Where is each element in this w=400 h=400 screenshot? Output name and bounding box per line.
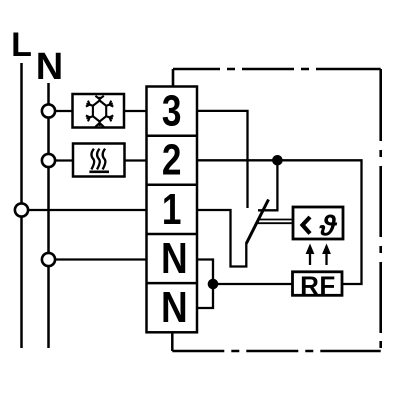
terminal block cell dividers	[147, 136, 198, 283]
wire L rail	[20, 63, 23, 348]
svg-text:RF: RF	[300, 270, 336, 300]
switch lever	[246, 200, 268, 244]
wire heating box to terminal 2	[125, 159, 147, 161]
cooling contactor box	[73, 94, 125, 128]
svg-text:N: N	[36, 46, 63, 88]
svg-text:ϑ: ϑ	[319, 211, 338, 243]
wire cooling box to terminal 3	[124, 110, 147, 112]
open terminal circle on N rail (heating)	[42, 154, 55, 167]
junction dot on terminal 2 wire	[272, 155, 283, 166]
enclosure dash-dot bottom border	[172, 350, 380, 353]
wire terminal N bracket to junction	[197, 260, 213, 309]
svg-text:N: N	[161, 282, 188, 332]
wire junction to RF box	[213, 283, 293, 285]
RF receiver box	[293, 272, 343, 296]
enclosure dash-dot right border	[379, 69, 382, 351]
svg-text:L: L	[11, 26, 32, 64]
thermostat less-than symbol	[303, 217, 311, 234]
wire terminal 2 to right side and RF	[197, 160, 362, 284]
svg-text:N: N	[161, 233, 188, 283]
signal arrow left (RF to thermostat)	[306, 244, 315, 266]
enclosure dash-dot top border	[173, 68, 381, 71]
wire terminal 1 to switch common	[197, 210, 246, 267]
svg-text:2: 2	[162, 136, 182, 185]
heating load box	[73, 144, 125, 177]
switch contact B drop from junction	[258, 160, 277, 210]
mechanical link to thermostat (double line)	[258, 219, 294, 221]
enclosure left stub top	[172, 69, 175, 87]
open terminal circle on N rail (cooling)	[42, 104, 55, 117]
open terminal circle on N rail (neutral)	[42, 253, 55, 266]
signal arrow right (RF to thermostat)	[322, 244, 331, 266]
wire N rail	[47, 83, 50, 348]
svg-text:3: 3	[162, 87, 182, 136]
svg-text:1: 1	[162, 185, 182, 234]
heating symbol wavy lines	[89, 149, 109, 172]
snowflake cooling symbol	[86, 96, 113, 127]
open terminal circle on L rail	[15, 203, 28, 216]
terminal block outline	[147, 87, 198, 333]
junction dot on N bracket	[208, 279, 219, 290]
wire terminal N2 to enclosure bottom	[171, 332, 174, 351]
wire terminal 3 to switch contact A	[197, 111, 248, 208]
wire L rail to terminal 1	[22, 209, 147, 211]
thermostat element box	[293, 207, 343, 239]
wire N rail to cooling box	[49, 110, 73, 112]
wire N rail to heating box	[49, 159, 74, 161]
wire N rail to terminal N	[49, 258, 147, 260]
